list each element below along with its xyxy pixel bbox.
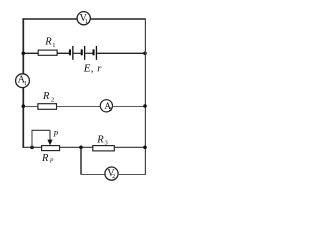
wire left vertical lower [22, 88, 24, 148]
voltmeter V1 [77, 12, 90, 26]
battery E,r cell 1 [69, 46, 74, 60]
resistor R1 [38, 50, 57, 55]
node row3-left junction [22, 104, 26, 108]
ammeter A1 [16, 74, 30, 88]
wire wiper vertical-right [49, 130, 51, 141]
wire row2 right [97, 52, 145, 54]
battery E,r cell 3 [93, 46, 98, 60]
node rheostat wiper junction [30, 146, 34, 150]
voltmeter V2 [105, 167, 118, 180]
svg-text:R: R [44, 37, 52, 48]
wire V2 branch vertical [80, 147, 82, 174]
node V2 branch junction [79, 146, 83, 150]
wire V2 bottom right [118, 174, 146, 176]
wire V2 bottom left [81, 174, 106, 176]
wire row4 right [114, 146, 145, 148]
wire row2 R1-to-battery [57, 52, 69, 54]
wire battery cell2-cell3 [85, 52, 92, 54]
svg-text:1: 1 [52, 42, 55, 49]
svg-text:,: , [91, 63, 94, 74]
svg-text:R: R [96, 135, 104, 146]
svg-text:3: 3 [105, 140, 108, 147]
rheostat RP body [42, 146, 60, 151]
svg-text:1: 1 [85, 19, 88, 25]
svg-text:R: R [42, 91, 50, 102]
node row3-right junction [143, 104, 147, 108]
svg-text:2: 2 [51, 97, 54, 104]
wire left vertical upper [22, 18, 24, 74]
wire right vertical [144, 18, 146, 175]
node row2-left junction [22, 52, 26, 56]
resistor R2 [38, 104, 57, 110]
wire row3 right [113, 106, 146, 108]
svg-text:P: P [52, 129, 58, 138]
wiper arrow P [47, 140, 52, 146]
battery E,r cell 2 [81, 46, 86, 60]
svg-text:E: E [83, 62, 91, 74]
wire top-right segment [90, 18, 145, 20]
wire battery cell1-cell2 [74, 52, 81, 54]
svg-text:1: 1 [24, 81, 27, 87]
wire row3 middle [57, 106, 101, 108]
wire row4 left [23, 146, 42, 148]
svg-text:2: 2 [112, 174, 115, 180]
wire row4 middle [60, 146, 93, 148]
node row4-right junction [143, 146, 147, 150]
wire row3 left [23, 106, 38, 108]
svg-text:R: R [41, 153, 49, 164]
wire row2 left [23, 52, 38, 54]
resistor R3 [93, 146, 115, 151]
svg-text:2: 2 [109, 107, 112, 113]
wire top-left segment [23, 18, 78, 20]
svg-text:P: P [49, 159, 54, 165]
node row2-right junction [143, 52, 147, 56]
wire wiper horizontal [32, 129, 51, 131]
wire wiper vertical-left [31, 130, 33, 147]
ammeter A2 [100, 100, 112, 113]
